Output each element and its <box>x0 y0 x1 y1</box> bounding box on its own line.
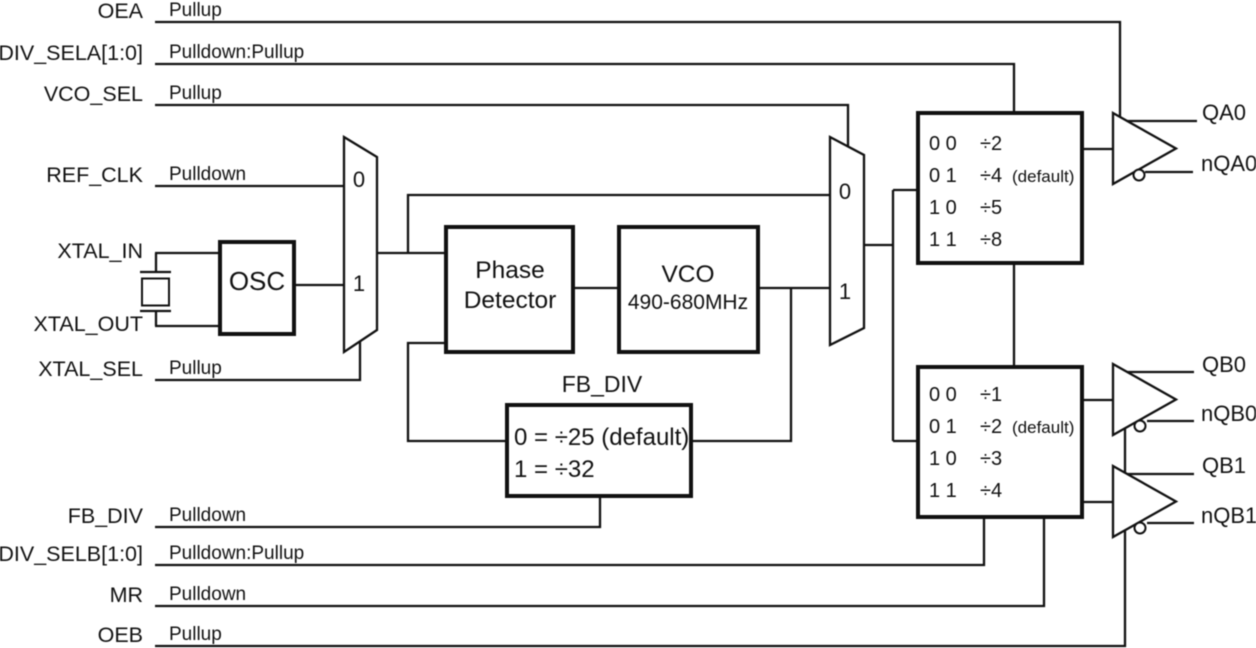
wire MR net <box>155 519 1044 606</box>
svg-text:1 1: 1 1 <box>929 229 957 251</box>
mux U2 (VCO bypass select) <box>830 137 864 345</box>
wire VCO_SEL net <box>155 105 848 147</box>
inversion bubble nQB1 <box>1135 523 1146 534</box>
svg-text:XTAL_IN: XTAL_IN <box>57 239 143 263</box>
svg-text:OEB: OEB <box>98 623 143 647</box>
svg-text:1 1: 1 1 <box>929 480 957 502</box>
wire QB1 output <box>1127 473 1194 475</box>
inversion bubble nQA0 <box>1134 170 1145 181</box>
svg-text:nQA0: nQA0 <box>1201 151 1256 176</box>
wire divider B to buffer QB1 <box>1084 501 1113 503</box>
wire Phase Detector to VCO <box>575 287 617 289</box>
wire XTAL_OUT to OSC <box>155 325 218 327</box>
svg-text:Detector: Detector <box>464 287 557 314</box>
wire mux U2 output <box>864 244 893 246</box>
svg-text:REF_CLK: REF_CLK <box>46 163 143 187</box>
phase detector U3 box <box>446 227 573 352</box>
svg-text:nQB1: nQB1 <box>1201 503 1256 528</box>
wire divider A to buffer QA0 <box>1084 148 1113 150</box>
wire REF_CLK to mux U1 input 0 <box>155 185 344 187</box>
wire clock distribution vertical <box>892 190 894 441</box>
svg-text:FB_DIV: FB_DIV <box>562 371 643 397</box>
svg-text:Pullup: Pullup <box>169 624 222 645</box>
svg-text:DIV_SELB[1:0]: DIV_SELB[1:0] <box>0 542 143 566</box>
svg-text:nQB0: nQB0 <box>1201 401 1256 426</box>
svg-text:QB0: QB0 <box>1202 352 1246 377</box>
svg-text:Pulldown: Pulldown <box>169 164 246 185</box>
wire QB0 output <box>1127 371 1194 373</box>
svg-text:Pullup: Pullup <box>169 358 222 379</box>
svg-text:QB1: QB1 <box>1202 453 1246 478</box>
wire divider B to buffer QB0 <box>1084 399 1113 401</box>
inversion bubble nQB0 <box>1135 421 1146 432</box>
mux U1 (reference select) <box>344 137 377 352</box>
svg-text:OSC: OSC <box>229 266 285 296</box>
wire XTAL_IN to crystal lead <box>155 253 157 272</box>
wire OEB net <box>155 530 1125 646</box>
svg-text:0: 0 <box>839 179 851 204</box>
wire OEA net <box>155 22 1120 117</box>
wire divider A to divider B cascade <box>1013 265 1015 365</box>
VCO U4 box <box>619 227 758 352</box>
svg-text:Pullup: Pullup <box>169 83 222 104</box>
svg-text:0 0: 0 0 <box>929 133 957 155</box>
svg-text:Phase: Phase <box>475 257 544 284</box>
wire nQB1 output <box>1147 522 1194 524</box>
divider B box <box>918 367 1082 517</box>
svg-text:Pulldown: Pulldown <box>169 505 246 526</box>
wire mux U1 output to Phase Detector <box>377 252 444 254</box>
svg-text:XTAL_SEL: XTAL_SEL <box>38 357 143 381</box>
output buffer QB0 <box>1113 364 1176 435</box>
svg-text:1: 1 <box>353 271 365 296</box>
svg-text:0: 0 <box>353 167 365 192</box>
svg-text:0 1: 0 1 <box>929 416 957 438</box>
wire DIV_SELB net <box>155 519 984 565</box>
wire node branch to mux U2 input 0 <box>408 195 830 253</box>
wire FB_DIV output to Phase Detector feedback input <box>408 343 505 441</box>
svg-text:÷3: ÷3 <box>980 448 1002 470</box>
svg-text:OEA: OEA <box>98 0 144 23</box>
wire enable chain between QB0 and QB1 <box>1124 428 1126 473</box>
svg-text:Pullup: Pullup <box>169 0 222 21</box>
svg-text:XTAL_OUT: XTAL_OUT <box>33 312 143 336</box>
crystal X1 <box>140 272 171 311</box>
wire nQA0 output <box>1145 171 1193 173</box>
svg-text:Pulldown:Pullup: Pulldown:Pullup <box>169 543 304 564</box>
svg-text:(default): (default) <box>1012 418 1074 437</box>
divider A box <box>918 113 1082 263</box>
wire crystal to XTAL_OUT <box>155 311 157 326</box>
svg-text:FB_DIV: FB_DIV <box>68 504 144 528</box>
svg-text:(default): (default) <box>1012 167 1074 186</box>
feedback divider FB_DIV box <box>507 405 691 496</box>
wire FB_DIV control net <box>155 498 600 527</box>
wire DIV_SELA net <box>155 64 1014 111</box>
wire VCO output to mux U2 input 1 <box>758 287 830 289</box>
wire XTAL_IN to OSC <box>155 252 218 254</box>
svg-text:÷4: ÷4 <box>980 480 1002 502</box>
svg-text:1 0: 1 0 <box>929 197 957 219</box>
wire clock to divider B <box>893 440 916 442</box>
svg-text:Pulldown:Pullup: Pulldown:Pullup <box>169 42 304 63</box>
svg-text:Pulldown: Pulldown <box>169 584 246 605</box>
wire QA0 output <box>1127 120 1197 122</box>
svg-text:490-680MHz: 490-680MHz <box>628 291 748 314</box>
svg-text:÷2: ÷2 <box>980 133 1002 155</box>
svg-text:÷5: ÷5 <box>980 197 1002 219</box>
svg-text:÷8: ÷8 <box>980 229 1002 251</box>
svg-text:0 0: 0 0 <box>929 384 957 406</box>
wire OSC output to mux U1 input 1 <box>296 284 344 286</box>
svg-text:0 1: 0 1 <box>929 165 957 187</box>
svg-text:÷4: ÷4 <box>980 165 1002 187</box>
svg-text:DIV_SELA[1:0]: DIV_SELA[1:0] <box>0 41 143 65</box>
oscillator OSC box <box>220 242 294 334</box>
svg-text:QA0: QA0 <box>1202 100 1246 125</box>
svg-text:1 0: 1 0 <box>929 448 957 470</box>
svg-text:VCO: VCO <box>661 261 714 288</box>
svg-text:÷2: ÷2 <box>980 416 1002 438</box>
output buffer QB1 <box>1113 466 1176 537</box>
svg-text:1: 1 <box>839 279 851 304</box>
svg-text:MR: MR <box>110 583 143 607</box>
svg-text:VCO_SEL: VCO_SEL <box>44 82 143 106</box>
output buffer QA0 <box>1113 113 1176 184</box>
wire clock to divider A <box>893 189 916 191</box>
wire XTAL_SEL to mux U1 select <box>155 341 360 380</box>
svg-text:1 = ÷32: 1 = ÷32 <box>514 456 595 483</box>
wire nQB0 output <box>1147 420 1194 422</box>
svg-text:0 = ÷25 (default): 0 = ÷25 (default) <box>514 424 689 451</box>
svg-text:÷1: ÷1 <box>980 384 1002 406</box>
wire VCO output branch down to FB_DIV <box>693 288 791 441</box>
